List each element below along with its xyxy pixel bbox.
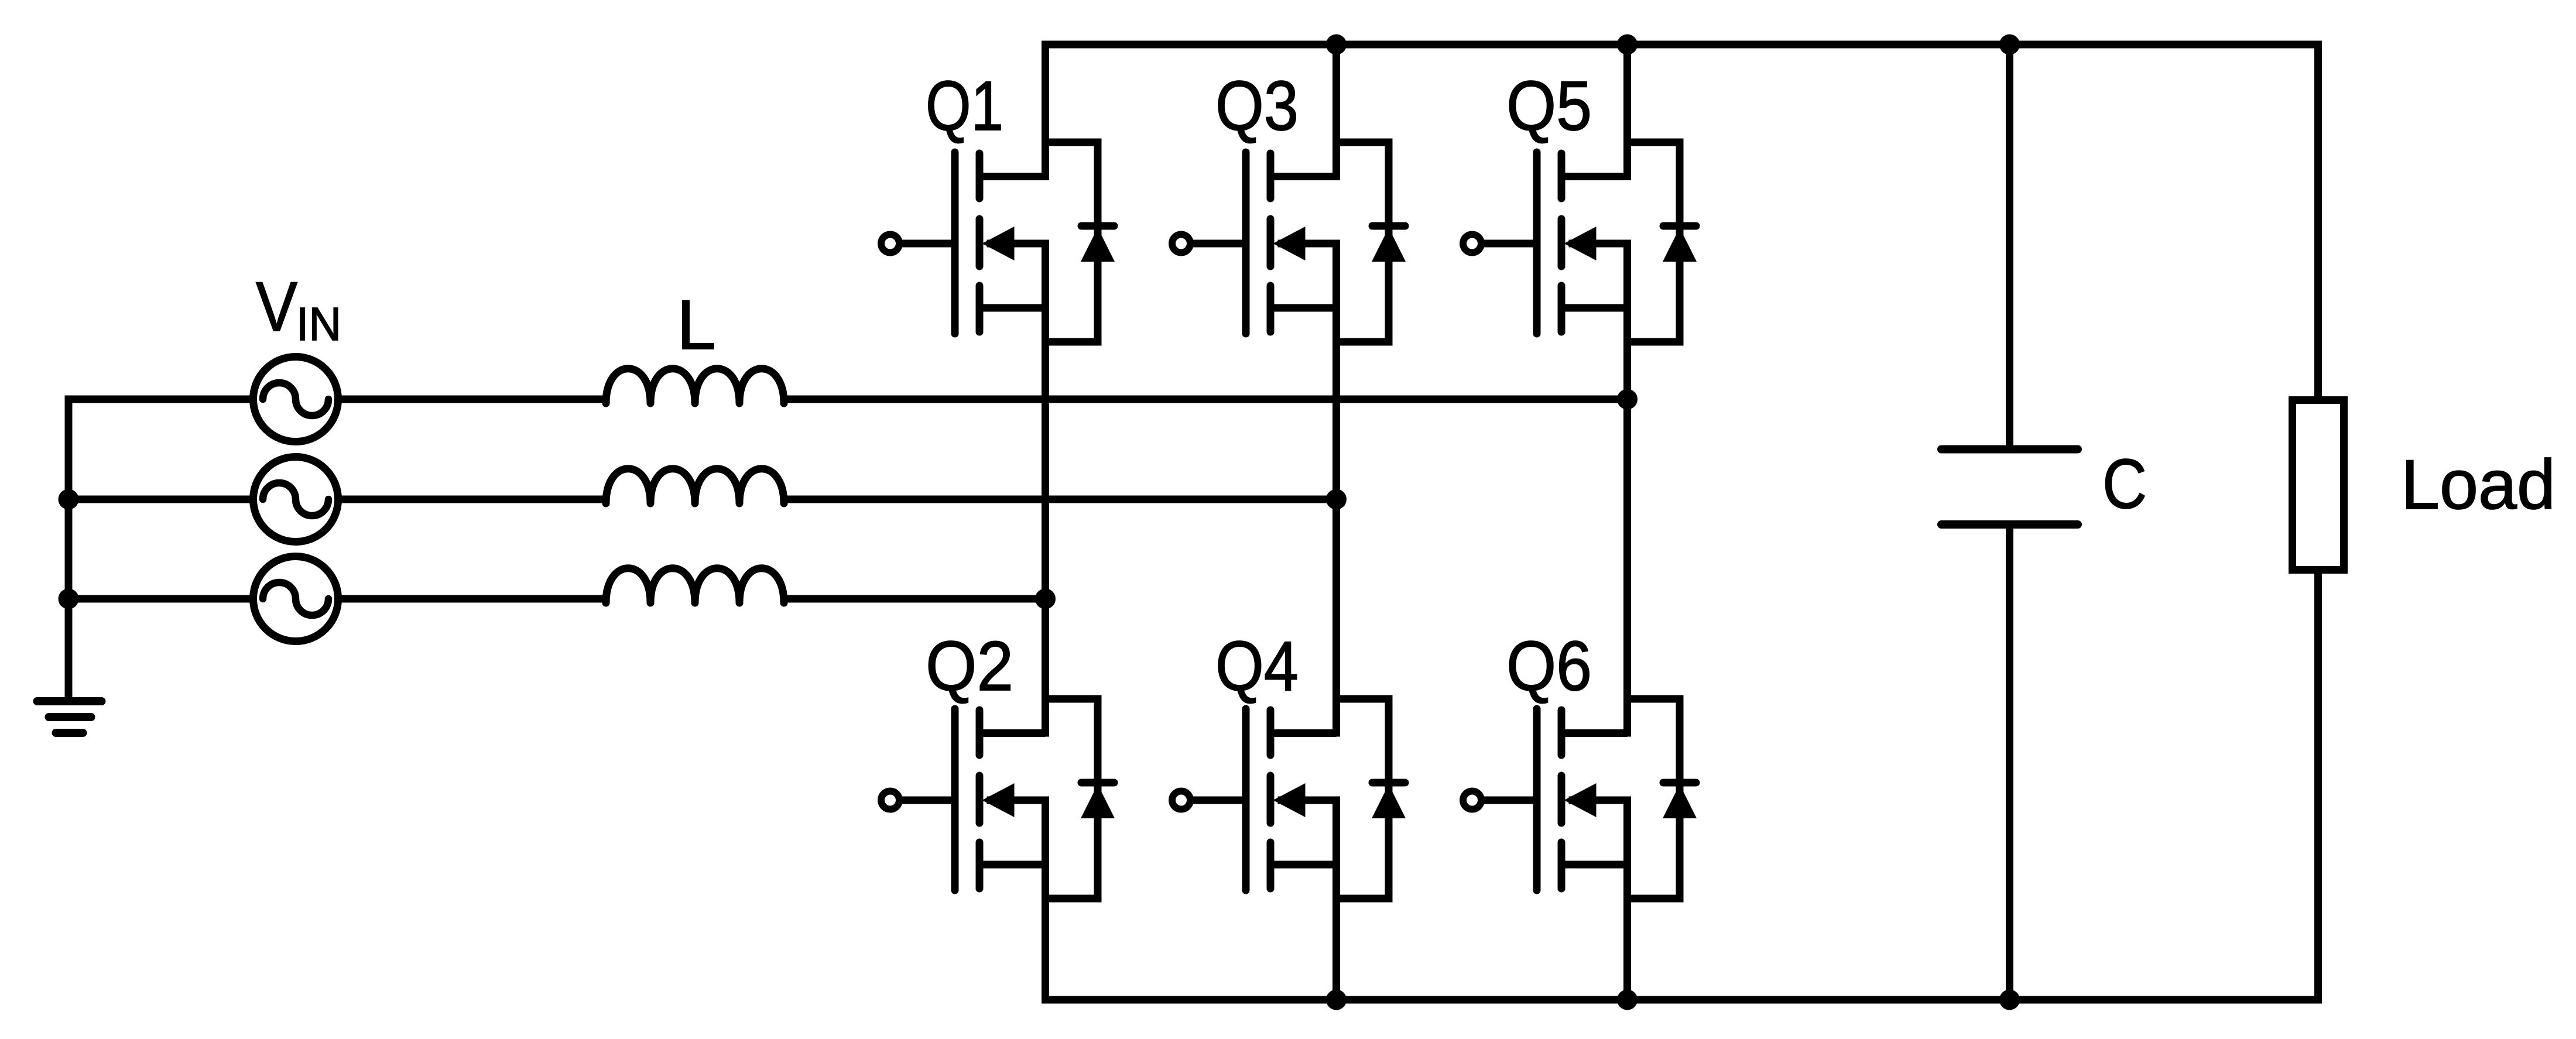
junction dot: top rail / leg3: [1617, 35, 1638, 55]
AC source VIN phase C: [254, 557, 338, 642]
transistor Q1 (N-MOSFET with body diode): [881, 142, 1115, 342]
wire: leg2 top (rail to Q3 drain): [1332, 44, 1340, 180]
wire: left neutral bus vertical: [65, 399, 73, 698]
svg-text:Q2: Q2: [926, 627, 1013, 705]
svg-text:V: V: [256, 268, 297, 346]
wire: phase B line from source to inductor: [338, 496, 607, 503]
svg-text:Q4: Q4: [1215, 627, 1299, 705]
wire: leg3 midsection (Q5 source to Q6 drain): [1623, 240, 1631, 737]
junction dot: top rail / capacitor: [1999, 35, 2020, 55]
svg-text:IN: IN: [296, 298, 341, 350]
svg-text:C: C: [2102, 445, 2147, 523]
label VIN: [256, 268, 341, 350]
wire: phase A line from source to inductor: [338, 396, 607, 403]
wire: leg2 midsection (Q3 source to Q4 drain): [1332, 240, 1340, 737]
junction dot: neutral bus / phase C: [59, 589, 79, 609]
ground: [37, 701, 102, 733]
wire: leg2 bottom (Q4 source to rail): [1332, 797, 1340, 1000]
svg-text:Load: Load: [2401, 445, 2556, 524]
junction dot: phase B / leg2 node: [1326, 489, 1347, 510]
junction dot: bottom rail / leg2: [1326, 990, 1347, 1010]
svg-text:Q5: Q5: [1506, 67, 1592, 145]
AC source VIN phase B: [254, 457, 338, 542]
junction dot: top rail / leg2: [1326, 35, 1347, 55]
capacitor C: [1941, 44, 2078, 1000]
inductor L phase A: [606, 369, 784, 403]
wire: phase C line left of source: [65, 595, 254, 603]
AC source VIN phase A: [254, 357, 338, 442]
transistor Q4 (N-MOSFET with body diode): [1172, 699, 1406, 899]
wire: leg3 bottom (Q6 source to rail): [1623, 797, 1631, 1000]
inductor L phase B: [606, 469, 784, 503]
junction dot: bottom rail / capacitor: [1999, 990, 2020, 1010]
wire: top DC+ rail with Q1 drain leg and Load top lead: [1046, 44, 2318, 400]
wire: leg3 top (rail to Q5 drain): [1623, 44, 1631, 180]
svg-text:Q1: Q1: [926, 67, 1003, 145]
transistor Q3 (N-MOSFET with body diode): [1172, 142, 1406, 342]
junction dot: neutral bus / phase B: [59, 489, 79, 510]
resistor Load: [2293, 400, 2344, 570]
wire: phase B line left of source: [65, 496, 254, 503]
inductor L phase C: [606, 568, 784, 603]
junction dot: bottom rail / leg3: [1617, 990, 1638, 1010]
svg-text:Q6: Q6: [1506, 627, 1592, 705]
svg-text:L: L: [677, 286, 716, 364]
wire: bottom DC- rail with Q2 source leg and Load bottom lead: [1046, 570, 2318, 1000]
wire: phase A line from inductor to leg3: [783, 396, 1628, 403]
transistor Q5 (N-MOSFET with body diode): [1463, 142, 1697, 342]
transistor Q6 (N-MOSFET with body diode): [1463, 699, 1697, 899]
wire: phase C line from source to inductor: [338, 595, 607, 603]
svg-text:Q3: Q3: [1215, 67, 1299, 145]
junction dot: phase C / leg1 node: [1035, 589, 1056, 609]
wire: leg1 midsection (Q1 source to Q2 drain): [1042, 240, 1049, 737]
junction dot: phase A / leg3 node: [1617, 389, 1638, 410]
wire: phase C line from inductor to leg1: [783, 595, 1046, 603]
wire: phase B line from inductor to leg2: [783, 496, 1337, 503]
wire: phase A line left of source: [65, 396, 254, 403]
transistor Q2 (N-MOSFET with body diode): [881, 699, 1115, 899]
